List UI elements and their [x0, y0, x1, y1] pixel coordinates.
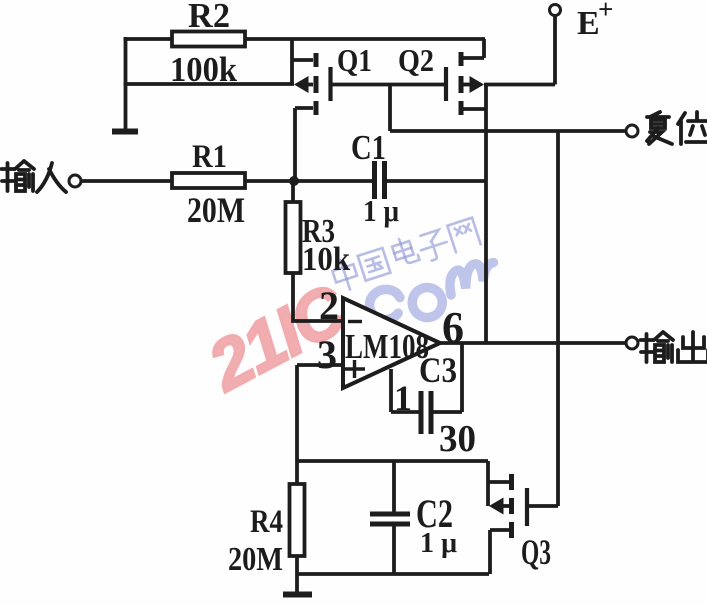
wire integrator bottom rail: [297, 572, 489, 576]
wire reset to Q3 gate vertical: [556, 131, 560, 506]
wire gate bus Q1-Q2: [331, 83, 446, 87]
svg-text:Q3: Q3: [521, 532, 551, 572]
wire E+ vertical: [553, 15, 557, 85]
svg-text:30: 30: [439, 418, 476, 460]
svg-text:C1: C1: [351, 128, 386, 167]
resistor R3: [291, 181, 295, 202]
svg-text:Q2: Q2: [398, 42, 434, 78]
wire Q3 gate lead: [527, 504, 558, 508]
wire pin1 drop from op-amp slope: [389, 369, 393, 412]
terminal input: [69, 175, 81, 187]
watermark 中国电子网: [330, 218, 481, 293]
wire Q2 source vertical to output node: [484, 85, 488, 344]
wire 100k feedback line: [124, 82, 295, 86]
svg-text:R4: R4: [250, 504, 283, 540]
ground: [295, 574, 299, 592]
watermark com script: [365, 251, 503, 336]
wire pin1 to C3: [391, 410, 419, 414]
node input junction: [289, 176, 299, 186]
op-amp U1 LM108: [343, 298, 440, 388]
svg-text:6: 6: [442, 303, 464, 352]
wire left branch vertical: [124, 37, 128, 130]
svg-text:10k: 10k: [302, 241, 350, 278]
svg-text:20M: 20M: [228, 541, 283, 578]
wire reset line: [390, 129, 626, 133]
pin 2 minus mark: [348, 320, 362, 323]
svg-text:1 μ: 1 μ: [420, 527, 458, 559]
wire reset drop from gate bus: [388, 85, 392, 132]
wire Q2 drain stub: [463, 56, 484, 60]
wire Q2 drain drop from top rail: [482, 39, 486, 58]
capacitor C2: [392, 461, 396, 512]
svg-text:R2: R2: [188, 0, 230, 35]
wire C3 to output: [431, 343, 462, 412]
svg-text:1: 1: [394, 378, 412, 418]
label 复位 (reset): [647, 112, 707, 144]
terminal output: [626, 337, 638, 349]
terminal reset: [626, 125, 638, 137]
wire Q1 drain stub: [292, 58, 313, 62]
wire C1 right to Q2 source vertical: [385, 179, 487, 183]
label 输出 (output): [641, 332, 707, 362]
svg-text:2: 2: [319, 283, 339, 328]
svg-text:3: 3: [317, 332, 337, 377]
svg-text:E: E: [577, 5, 600, 42]
ground bar left branch: [112, 129, 138, 135]
capacitor C1: [375, 161, 385, 199]
wire input line: [81, 179, 372, 183]
wire top rail from node A to Q2 drain drop: [124, 37, 486, 41]
wire Q3 source down to bottom rail: [488, 530, 492, 574]
transistor Q3: [488, 461, 527, 538]
wire Q1 drain vertical: [290, 39, 294, 84]
svg-text:Q1: Q1: [337, 42, 372, 78]
wire pin3 vertical down: [295, 365, 299, 461]
wire Q1 source to input node: [293, 108, 297, 181]
resistor R2: [172, 32, 245, 47]
wires & components (schematic ink): [69, 5, 638, 595]
wire R3 to pin2: [293, 273, 343, 321]
wire Q2 body to E+: [484, 83, 555, 87]
svg-text:C3: C3: [419, 350, 457, 390]
svg-text:+: +: [598, 0, 613, 24]
svg-text:20M: 20M: [187, 190, 245, 230]
wire Q1 source stub: [295, 106, 313, 110]
svg-text:1 μ: 1 μ: [363, 193, 399, 228]
svg-text:LM108: LM108: [345, 327, 429, 366]
svg-text:100k: 100k: [170, 50, 237, 89]
transistor Q2: [446, 52, 484, 115]
svg-text:R1: R1: [192, 139, 227, 175]
resistor R1: [172, 173, 245, 188]
watermark 21IC: [195, 269, 360, 406]
label 输入 (input): [2, 161, 67, 192]
transistor Q1: [294, 53, 331, 115]
capacitor C3: [421, 391, 431, 434]
wire Q3 source stub: [490, 528, 509, 532]
resistor R4: [295, 461, 299, 484]
wire output line: [440, 341, 626, 345]
wire integrator top rail: [297, 459, 488, 463]
terminal E+: [550, 5, 561, 16]
wire Q2 source stub: [463, 107, 486, 111]
pin 3 plus mark: [345, 360, 365, 378]
wire pin3 lead: [297, 363, 343, 367]
